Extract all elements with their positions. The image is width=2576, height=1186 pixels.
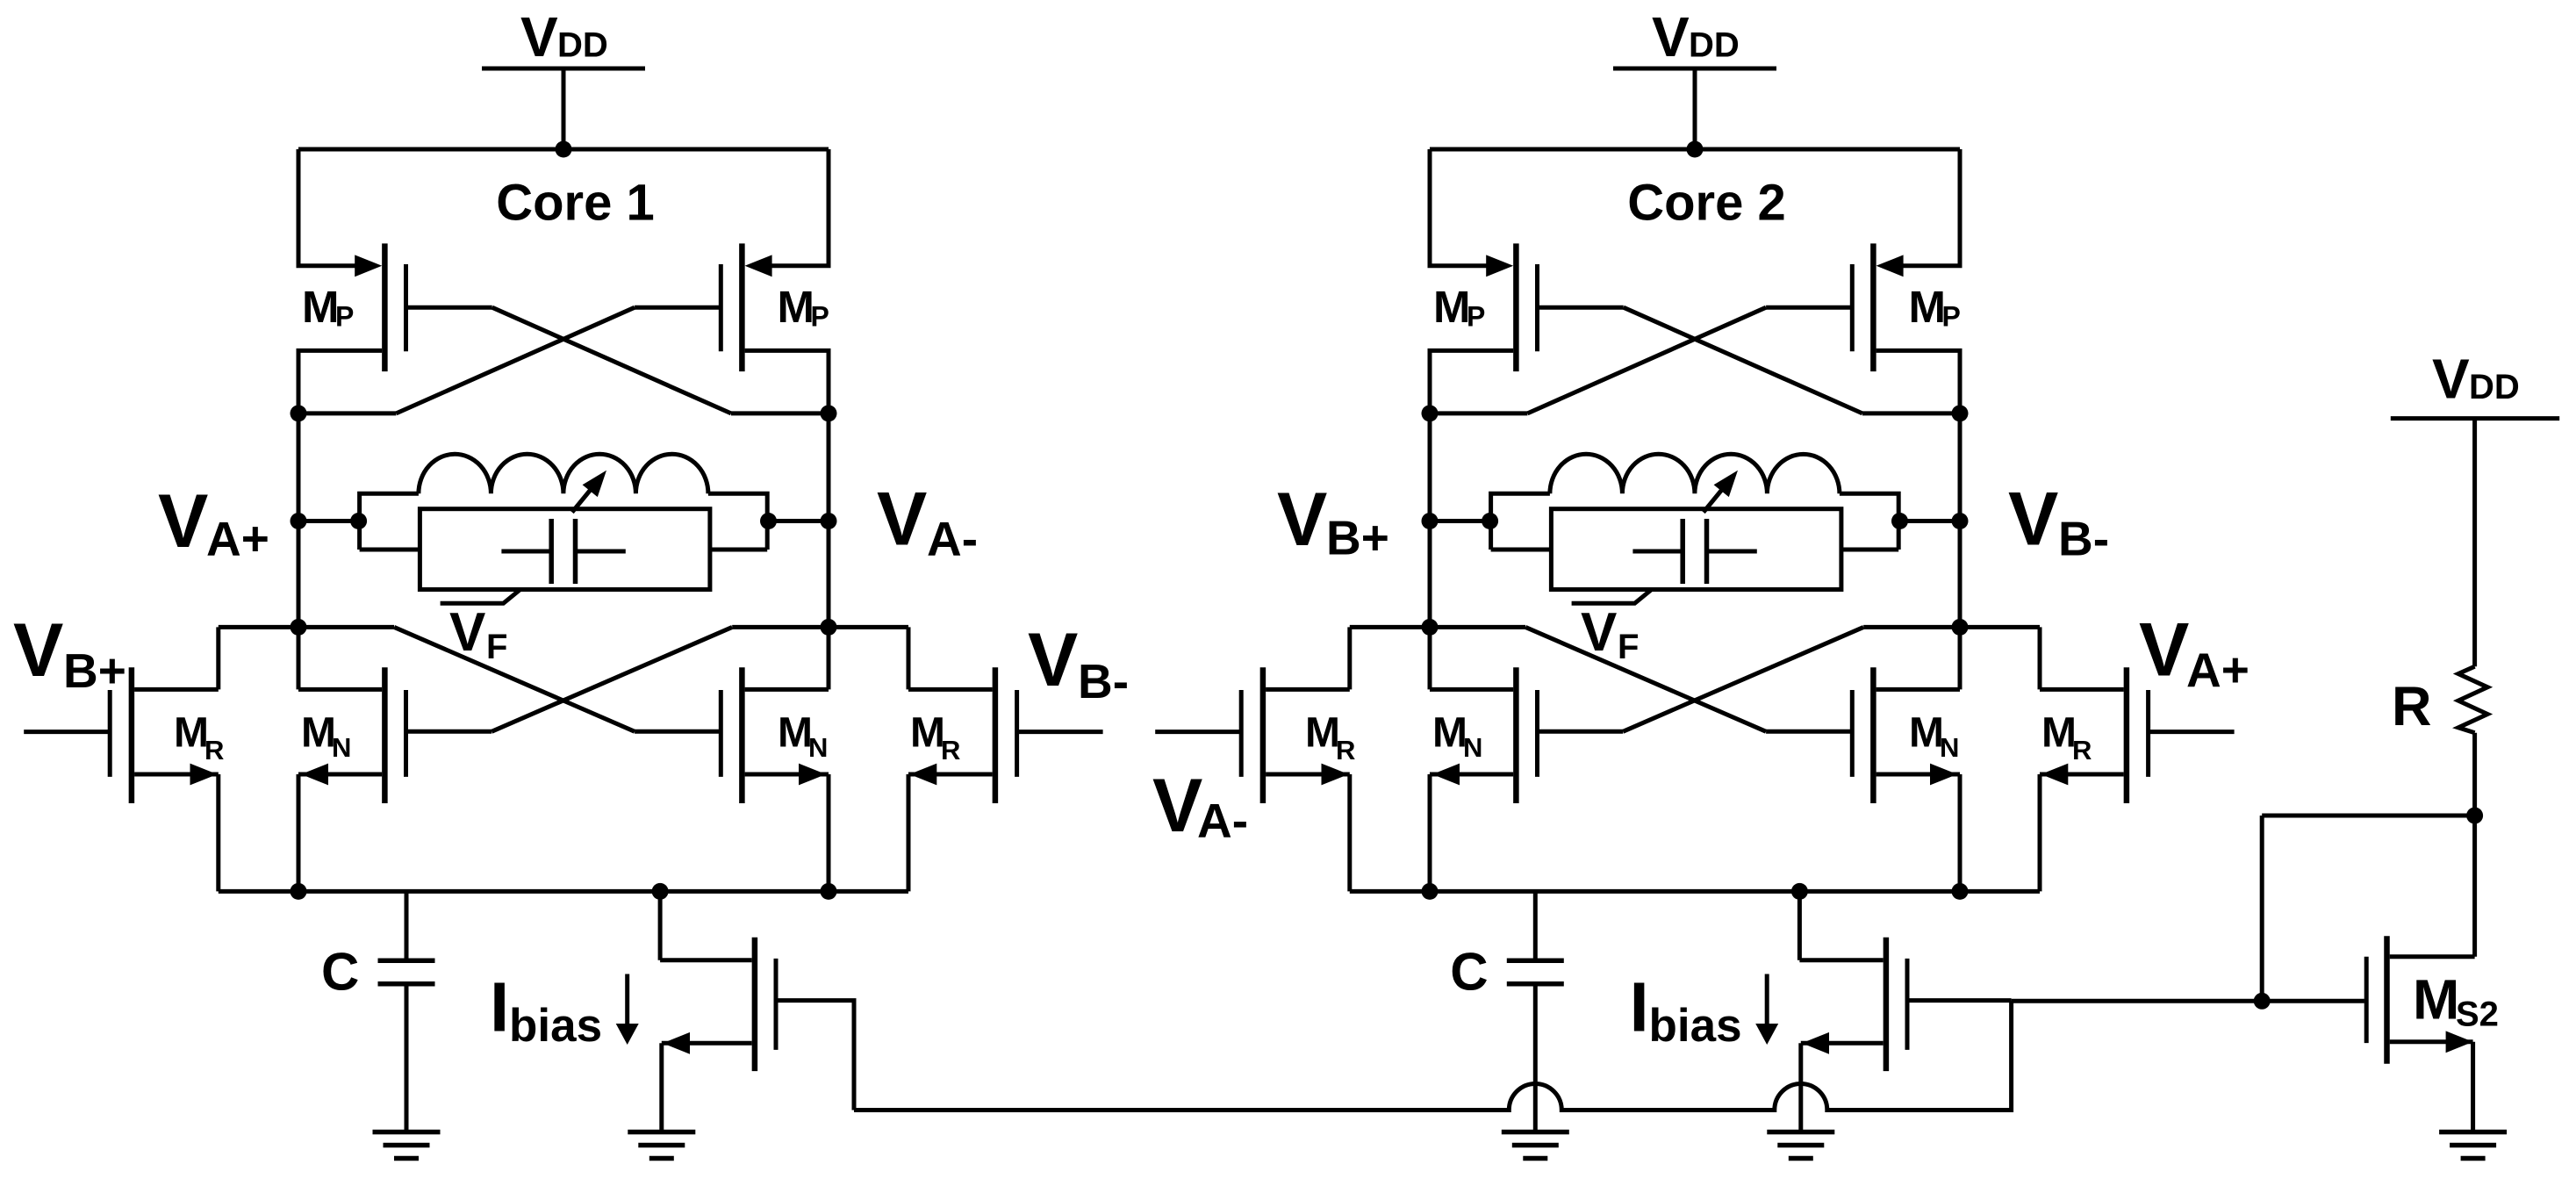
- node R bottom junction dot: [2466, 808, 2483, 824]
- power VDD supply symbol (bias branch): [2391, 348, 2559, 667]
- ground symbol under C (Core 2): [1502, 1132, 1569, 1159]
- node tank right rail dot (Core 2): [1952, 513, 1969, 529]
- svg-text:P: P: [1467, 301, 1485, 333]
- wire right rail MN source to bottom rail (Core 1): [827, 774, 831, 891]
- label MP left (Core 2): [1433, 282, 1485, 333]
- capacitor C tail cap (Core 1): [378, 891, 435, 1132]
- wire left rail node to tank level (Core 1): [297, 413, 301, 628]
- node VDD junction dot (Core 2): [1687, 141, 1704, 158]
- node tank left frame dot (Core 1): [350, 513, 367, 529]
- wire tank left connection (Core 2): [1430, 519, 1491, 523]
- svg-text:V: V: [1277, 478, 1327, 562]
- label node VA+ (Core 1 left output): [158, 479, 269, 565]
- wire lower node right (Core 1): [732, 625, 908, 629]
- svg-text:V: V: [1152, 764, 1202, 848]
- wire MN cross-coupling diagonal left-gate to right-node (Core 2): [1623, 627, 1863, 731]
- node bottom-right junction dot (Core 1): [821, 883, 837, 900]
- label node VA- (Core 2 left MR gate): [1152, 764, 1248, 848]
- ground symbol under C (Core 1): [373, 1132, 441, 1159]
- label Core 1: [496, 175, 655, 232]
- wire MS2 gate line: [2012, 999, 2364, 1003]
- node bottom-left junction dot (Core 2): [1422, 883, 1439, 900]
- label C (Core 1): [321, 943, 359, 1002]
- transistor MP right (PMOS) (Core 1): [635, 243, 830, 371]
- svg-text:M: M: [301, 710, 336, 757]
- svg-text:V: V: [877, 478, 927, 562]
- svg-text:A+: A+: [2186, 643, 2250, 697]
- label node VB- (Core 2 right output): [2008, 478, 2109, 566]
- current arrow Ibias down (Core 2): [1755, 974, 1778, 1046]
- wire left rail to MN drain (Core 1): [297, 627, 301, 689]
- label node VA- (Core 1 right output): [877, 478, 978, 566]
- wire MP cross-coupling diagonal right-gate to left-node (Core 1): [396, 307, 635, 413]
- wire right rail MP drain to node (Core 1): [827, 350, 831, 413]
- wire left rail to MN drain (Core 2): [1428, 627, 1432, 689]
- wire top VDD rail (Core 2): [1430, 147, 1960, 152]
- node tank right frame dot (Core 1): [760, 513, 777, 529]
- wire tail gate lead (Core 2): [1909, 998, 2011, 1003]
- wire MP cross-coupling right node stub (Core 2): [1862, 411, 1960, 415]
- node bottom-center junction dot (Core 2): [1791, 883, 1808, 900]
- wire tank right connection (Core 1): [767, 519, 829, 523]
- node tank right rail dot (Core 1): [821, 513, 837, 529]
- wire left rail node to tank level (Core 2): [1428, 413, 1432, 628]
- svg-text:R: R: [941, 735, 960, 766]
- wire MP cross-coupling left node stub (Core 1): [298, 411, 396, 415]
- transistor MP right (PMOS) (Core 2): [1766, 243, 1962, 371]
- transistor MR right (Core 1): [908, 627, 1103, 891]
- node tank left rail dot (Core 2): [1422, 513, 1439, 529]
- svg-text:M: M: [1432, 710, 1467, 757]
- wire left rail from top rail to MP source (Core 2): [1428, 149, 1432, 266]
- svg-text:N: N: [332, 732, 351, 763]
- svg-text:M: M: [302, 282, 339, 332]
- wire top VDD rail (Core 1): [298, 147, 829, 152]
- svg-text:M: M: [1909, 282, 1946, 332]
- svg-text:N: N: [1463, 732, 1482, 763]
- wire MP cross-coupling right node stub (Core 1): [731, 411, 829, 415]
- svg-text:Core 2: Core 2: [1627, 175, 1786, 232]
- svg-text:A-: A-: [927, 512, 978, 566]
- label MN right (Core 1): [778, 710, 828, 764]
- ground symbol under tail transistor (Core 2): [1767, 1132, 1834, 1159]
- node upper-right junction dot (Core 1): [821, 405, 837, 421]
- svg-text:M: M: [778, 282, 814, 332]
- label Ibias (Core 2): [1630, 967, 1742, 1052]
- power VDD supply symbol (Core 2): [1613, 5, 1776, 149]
- label MP left (Core 1): [302, 282, 354, 333]
- node tank left rail dot (Core 1): [291, 513, 307, 529]
- wire left rail from top rail to MP source (Core 1): [297, 149, 301, 266]
- transistor tail current source (Core 2): [1799, 891, 1907, 1132]
- svg-text:V: V: [13, 608, 63, 693]
- svg-text:B-: B-: [1078, 654, 1129, 708]
- wire right rail MP drain to node (Core 2): [1958, 350, 1962, 413]
- ground symbol under MS2: [2439, 1132, 2507, 1159]
- svg-text:F: F: [486, 628, 507, 666]
- wire bottom tail rail (Core 1): [219, 889, 908, 894]
- wire lower node right (Core 2): [1863, 625, 2040, 629]
- transistor MN right (Core 2): [1766, 667, 1960, 803]
- label MR left (Core 1): [174, 710, 224, 766]
- node MS2 gate junction dot: [2254, 993, 2271, 1010]
- node bottom-right junction dot (Core 2): [1952, 883, 1969, 900]
- label MR right (Core 2): [2041, 710, 2092, 766]
- svg-text:DD: DD: [1689, 26, 1740, 65]
- svg-text:C: C: [1450, 943, 1488, 1002]
- node tank right frame dot (Core 2): [1891, 513, 1908, 529]
- label MP right (Core 1): [778, 282, 829, 333]
- varactor box outline (Core 1): [420, 509, 710, 590]
- svg-text:bias: bias: [1649, 1000, 1742, 1052]
- label MS2: [2413, 968, 2499, 1034]
- wire MN cross-coupling diagonal left-node to right-gate (Core 2): [1525, 627, 1766, 731]
- wire MP cross-coupling diagonal right-gate to left-node (Core 2): [1527, 307, 1766, 413]
- svg-text:V: V: [2139, 608, 2189, 693]
- wire R node down to MS2 drain: [2472, 816, 2477, 957]
- node upper-left junction dot (Core 1): [291, 405, 307, 421]
- wire gate node riser to R bottom: [2260, 816, 2264, 1001]
- svg-text:R: R: [2392, 676, 2432, 737]
- ground symbol under tail transistor (Core 1): [628, 1132, 695, 1159]
- svg-text:bias: bias: [509, 1000, 602, 1052]
- svg-text:V: V: [158, 479, 208, 564]
- node VDD junction dot (Core 1): [556, 141, 572, 158]
- svg-text:P: P: [335, 301, 354, 333]
- svg-text:I: I: [490, 967, 509, 1046]
- wire left rail MP drain to node (Core 2): [1428, 350, 1432, 413]
- label MN left (Core 1): [301, 710, 351, 764]
- svg-text:V: V: [520, 5, 558, 68]
- svg-text:P: P: [811, 301, 829, 333]
- svg-text:M: M: [1433, 282, 1470, 332]
- svg-text:R: R: [205, 735, 224, 766]
- transistor MN right (Core 1): [635, 667, 829, 803]
- label C (Core 2): [1450, 943, 1488, 1002]
- label node VB+ (Core 2 left output): [1277, 478, 1389, 565]
- svg-text:F: F: [1618, 628, 1639, 666]
- svg-text:M: M: [174, 710, 209, 757]
- label node VA+ (Core 2 right MR gate): [2139, 608, 2250, 698]
- svg-text:C: C: [321, 943, 359, 1002]
- varactor box outline (Core 2): [1551, 509, 1841, 590]
- svg-text:V: V: [1652, 5, 1690, 68]
- node tank left frame dot (Core 2): [1482, 513, 1498, 529]
- svg-text:N: N: [808, 732, 828, 763]
- node lower-right junction dot (Core 1): [821, 619, 837, 636]
- capacitor varactor plates (Core 2): [1632, 519, 1756, 584]
- wire right rail from top rail to MP source (Core 2): [1958, 149, 1962, 266]
- wire MP cross-coupling diagonal left-gate to right-node (Core 1): [492, 307, 731, 413]
- label MP right (Core 2): [1909, 282, 1961, 333]
- wire right rail from top rail to MP source (Core 1): [827, 149, 831, 266]
- svg-text:N: N: [1940, 732, 1959, 763]
- node bottom-center junction dot (Core 1): [652, 883, 669, 900]
- transistor MR left (Core 2): [1155, 627, 1350, 891]
- wire lower node left (Core 1): [219, 625, 394, 629]
- transistor MS2: [2366, 936, 2474, 1132]
- wire right rail to MN drain (Core 1): [827, 627, 831, 689]
- node lower-right junction dot (Core 2): [1952, 619, 1969, 636]
- wire right rail node to tank level (Core 1): [827, 413, 831, 628]
- svg-text:P: P: [1942, 301, 1961, 333]
- varactor tuning arrow (Core 1): [572, 471, 606, 513]
- label VF (Core 1): [449, 602, 507, 666]
- svg-text:Core 1: Core 1: [496, 175, 655, 232]
- svg-text:M: M: [778, 710, 813, 757]
- current arrow Ibias down (Core 1): [616, 974, 639, 1046]
- transistor MP left (PMOS) (Core 2): [1428, 243, 1624, 371]
- label node VB+ (Core 1 left MR gate): [13, 608, 126, 698]
- inductor L tank coil (Core 1): [360, 454, 768, 550]
- wire left rail MP drain to node (Core 1): [297, 350, 301, 413]
- inductor L tank coil (Core 2): [1491, 454, 1899, 550]
- wire tank right connection (Core 2): [1898, 519, 1960, 523]
- wire left rail MN source to bottom rail (Core 1): [297, 774, 301, 891]
- wire right rail node to tank level (Core 2): [1958, 413, 1962, 628]
- transistor tail current source (Core 1): [660, 891, 776, 1132]
- capacitor C tail cap (Core 2): [1507, 891, 1564, 1132]
- node lower-left junction dot (Core 1): [291, 619, 307, 636]
- wire MN cross-coupling diagonal left-node to right-gate (Core 1): [394, 627, 635, 731]
- wire bias line from Core 1 tail gate to MS2 (with hops): [854, 1001, 2012, 1110]
- node lower-left junction dot (Core 2): [1422, 619, 1439, 636]
- label MR left (Core 2): [1305, 710, 1355, 766]
- terminal VF tap (Core 1): [441, 590, 520, 604]
- svg-text:V: V: [1028, 618, 1078, 702]
- transistor MN left (Core 2): [1430, 667, 1623, 803]
- wire MP cross-coupling left node stub (Core 2): [1430, 411, 1527, 415]
- wire MN cross-coupling diagonal left-gate to right-node (Core 1): [492, 627, 732, 731]
- svg-text:V: V: [2432, 348, 2470, 411]
- svg-text:I: I: [1630, 967, 1649, 1046]
- svg-text:M: M: [1305, 710, 1340, 757]
- label Core 2: [1627, 175, 1786, 232]
- wire left rail MN source to bottom rail (Core 2): [1428, 774, 1432, 891]
- svg-text:V: V: [2008, 478, 2058, 562]
- label Ibias (Core 1): [490, 967, 602, 1052]
- wire node to gate riser: [2262, 814, 2474, 818]
- svg-text:M: M: [2041, 710, 2077, 757]
- label node VB- (Core 1 right MR gate): [1028, 618, 1129, 708]
- resistor R: [2458, 666, 2487, 733]
- svg-text:S2: S2: [2456, 995, 2499, 1033]
- svg-text:R: R: [2072, 735, 2092, 766]
- wire MP cross-coupling diagonal left-gate to right-node (Core 2): [1624, 307, 1862, 413]
- power VDD supply symbol (Core 1): [482, 5, 645, 149]
- svg-text:B+: B+: [63, 643, 126, 698]
- svg-text:R: R: [1336, 735, 1355, 766]
- svg-text:M: M: [910, 710, 945, 757]
- label R: [2392, 676, 2432, 737]
- wire lower node left (Core 2): [1350, 625, 1525, 629]
- terminal VF tap (Core 2): [1572, 590, 1652, 604]
- svg-text:M: M: [2413, 968, 2459, 1031]
- label MR right (Core 1): [910, 710, 960, 766]
- varactor tuning arrow (Core 2): [1704, 471, 1738, 513]
- wire right rail MN source to bottom rail (Core 2): [1958, 774, 1962, 891]
- capacitor varactor plates (Core 1): [501, 519, 625, 584]
- svg-text:A-: A-: [1197, 794, 1248, 848]
- node bottom-left junction dot (Core 1): [291, 883, 307, 900]
- label VF (Core 2): [1581, 602, 1639, 666]
- wire tail gate lead with riser (Core 1): [778, 1001, 854, 1111]
- svg-text:DD: DD: [557, 26, 608, 65]
- svg-text:B+: B+: [1326, 511, 1389, 565]
- transistor MP left (PMOS) (Core 1): [297, 243, 492, 371]
- svg-text:B-: B-: [2058, 512, 2109, 566]
- svg-text:M: M: [1909, 710, 1944, 757]
- wire R bottom to node: [2472, 733, 2477, 816]
- wire bottom tail rail (Core 2): [1350, 889, 2040, 894]
- node upper-left junction dot (Core 2): [1422, 405, 1439, 421]
- label MN right (Core 2): [1909, 710, 1959, 764]
- wire tank left connection (Core 1): [298, 519, 360, 523]
- wire right rail to MN drain (Core 2): [1958, 627, 1962, 689]
- transistor MN left (Core 1): [298, 667, 492, 803]
- svg-text:DD: DD: [2469, 368, 2520, 406]
- node upper-right junction dot (Core 2): [1952, 405, 1969, 421]
- transistor MR right (Core 2): [2040, 627, 2235, 891]
- transistor MR left (Core 1): [24, 627, 219, 891]
- svg-text:A+: A+: [206, 511, 269, 565]
- label MN left (Core 2): [1432, 710, 1482, 764]
